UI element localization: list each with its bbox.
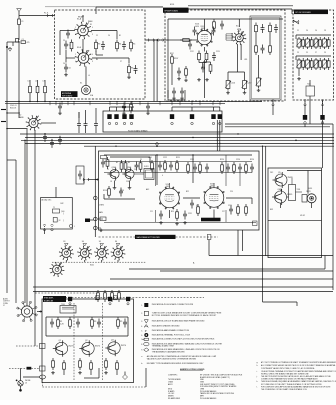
capacitor C267 bbox=[191, 200, 193, 204]
switch S1A bbox=[78, 25, 89, 36]
wire B2 top bus bbox=[168, 18, 283, 20]
svg-text:C27: C27 bbox=[222, 211, 225, 213]
svg-text:S5: S5 bbox=[99, 241, 101, 243]
svg-text:R5: R5 bbox=[120, 321, 122, 323]
capacitor C269 bbox=[184, 211, 186, 215]
module box A2 RF amplifier bbox=[165, 10, 285, 101]
wire bbox=[225, 34, 227, 40]
wire bbox=[23, 376, 40, 378]
svg-text:A6 CAL OSC: A6 CAL OSC bbox=[42, 198, 53, 201]
svg-text:INDICATES A CIRCUIT BOARD AND: INDICATES A CIRCUIT BOARD AND MAIN FRAME… bbox=[152, 320, 205, 323]
resistor R211 bbox=[269, 23, 271, 26]
wire drop x217 bbox=[216, 120, 218, 151]
connector P1/J1 bbox=[46, 14, 49, 17]
svg-text:C9: C9 bbox=[324, 52, 326, 54]
resistor R267 bbox=[245, 162, 247, 165]
wire bbox=[171, 107, 173, 111]
connector E35 bbox=[40, 366, 46, 371]
svg-text:FOR COMPLETE DESCRIPTION SEE: FOR COMPLETE DESCRIPTION SEE A NUMBERED … bbox=[261, 385, 331, 388]
capacitor C212 bbox=[189, 41, 191, 45]
connector E22 black bbox=[320, 115, 324, 120]
svg-text:IF/AF AMPL: IF/AF AMPL bbox=[44, 297, 54, 300]
bus tick stubs bbox=[49, 102, 51, 106]
svg-text:INDICATES A MAIN FRAME CONNECT: INDICATES A MAIN FRAME CONNECTION bbox=[152, 329, 190, 332]
trimmer C243 bbox=[324, 58, 326, 60]
wire bbox=[7, 41, 19, 43]
connector P3 bbox=[157, 39, 160, 42]
svg-text:F1: F1 bbox=[22, 21, 24, 23]
fuse F1 bbox=[18, 16, 20, 20]
svg-text:INDICATES A TERMINAL POST E20: INDICATES A TERMINAL POST E201 - E219 bbox=[152, 333, 190, 336]
pin bbox=[304, 122, 306, 124]
connector J2 audio bbox=[21, 306, 32, 317]
resistor R252 bbox=[125, 160, 127, 163]
wire bbox=[65, 50, 67, 63]
switch S1B bbox=[78, 53, 89, 64]
svg-text:SW BOARD: SW BOARD bbox=[62, 94, 73, 97]
wire bbox=[199, 62, 207, 64]
capacitor C220 bbox=[262, 24, 264, 28]
wire bbox=[168, 39, 181, 41]
capacitor C251 bbox=[136, 162, 138, 166]
legend item 8 bbox=[143, 342, 149, 345]
svg-text:C5: C5 bbox=[140, 159, 142, 161]
wire drop x322 bbox=[322, 120, 324, 168]
resistor R205 bbox=[206, 51, 208, 54]
svg-text:R4: R4 bbox=[96, 59, 98, 61]
svg-text:2N335: 2N335 bbox=[287, 194, 292, 196]
trimmer C242 bbox=[315, 58, 317, 60]
svg-text:5654: 5654 bbox=[211, 185, 215, 187]
wire bbox=[109, 107, 111, 111]
wire bbox=[45, 317, 47, 336]
ground bbox=[227, 91, 229, 93]
svg-text:C205 .01: C205 .01 bbox=[10, 105, 17, 107]
svg-text:R6: R6 bbox=[131, 68, 133, 70]
svg-text:R214: R214 bbox=[103, 190, 107, 192]
svg-text:R224: R224 bbox=[220, 159, 224, 161]
wire bbox=[280, 189, 282, 192]
capacitor C293 bbox=[124, 319, 126, 323]
svg-text:R22: R22 bbox=[186, 191, 189, 193]
connector E21 black bbox=[303, 115, 307, 120]
ground bbox=[114, 186, 116, 188]
wire vertical x27 bbox=[26, 128, 28, 306]
trimmer C230 bbox=[298, 37, 300, 39]
capacitor C219b bbox=[181, 88, 183, 92]
resistor R299 bbox=[63, 360, 65, 363]
trimmer C210 bbox=[194, 27, 196, 31]
svg-text:C217: C217 bbox=[247, 83, 251, 85]
wire vertical x157 bbox=[156, 40, 158, 102]
svg-text:C7: C7 bbox=[315, 52, 317, 54]
svg-text:C3: C3 bbox=[134, 169, 136, 171]
wire bbox=[33, 286, 333, 288]
resistor R213 bbox=[269, 43, 271, 46]
wire bbox=[82, 39, 84, 53]
svg-text:5654: 5654 bbox=[201, 28, 205, 30]
node junction bbox=[18, 41, 19, 42]
wire bbox=[92, 57, 129, 59]
svg-text:C231: C231 bbox=[188, 213, 192, 215]
pin bbox=[123, 122, 125, 124]
wire bbox=[251, 222, 254, 224]
svg-text:R1: R1 bbox=[119, 35, 121, 37]
resistor R298 bbox=[52, 358, 54, 361]
capacitor C230 bbox=[78, 120, 80, 124]
svg-text:C6: C6 bbox=[63, 63, 65, 65]
svg-text:R3: R3 bbox=[98, 44, 100, 46]
svg-text:CONTINGENT VALUES WITH TUBE,: CONTINGENT VALUES WITH TUBE, 1.5 AND T.P… bbox=[261, 367, 315, 370]
svg-text:R5: R5 bbox=[133, 44, 135, 46]
connector E205 black bbox=[170, 114, 174, 119]
pin bbox=[115, 122, 117, 124]
wire bbox=[83, 180, 85, 184]
wire bbox=[95, 51, 97, 55]
svg-text:C223: C223 bbox=[190, 159, 194, 161]
svg-text:P: P bbox=[145, 329, 147, 333]
inductor T203 bbox=[60, 306, 76, 314]
transistor Q206 bbox=[108, 342, 120, 354]
trimmer C231 bbox=[307, 37, 309, 39]
pin bbox=[108, 122, 110, 124]
svg-text:BAND: BAND bbox=[19, 116, 24, 119]
svg-text:FL201: FL201 bbox=[144, 166, 149, 168]
wire bbox=[98, 368, 100, 378]
transistor Q204 bbox=[55, 342, 67, 354]
capacitor C262 bbox=[194, 164, 196, 168]
wire bbox=[110, 156, 150, 158]
resistor R204 bbox=[198, 51, 200, 54]
svg-text:S4: S4 bbox=[82, 241, 84, 243]
svg-text:2N274: 2N274 bbox=[95, 346, 100, 348]
svg-text:S201: S201 bbox=[90, 265, 94, 267]
wire B5 grid bbox=[104, 161, 252, 163]
switch S2 band bbox=[29, 118, 38, 127]
variable capacitor C217 bbox=[244, 79, 246, 81]
capacitor C291 bbox=[77, 319, 79, 323]
component diamond bbox=[123, 375, 128, 380]
svg-text:THROUGH SCHEME, REQUIRES A: THROUGH SCHEME, REQUIRES A CALIBRATED CA… bbox=[261, 380, 336, 383]
wire bbox=[97, 227, 101, 229]
wire bbox=[78, 112, 80, 118]
svg-text:C6: C6 bbox=[68, 68, 70, 70]
connector bbox=[96, 296, 100, 300]
pin bbox=[212, 122, 214, 124]
pin bbox=[130, 122, 132, 124]
wire bbox=[90, 219, 94, 221]
svg-text:J2: J2 bbox=[3, 305, 5, 307]
capacitor C3 bbox=[65, 41, 67, 45]
wire bbox=[65, 260, 67, 262]
svg-text:1K: 1K bbox=[110, 181, 112, 183]
trimmer C233 bbox=[324, 37, 326, 39]
svg-text:Q6: Q6 bbox=[278, 189, 281, 191]
svg-text:C218: C218 bbox=[120, 190, 124, 192]
svg-text:2N274: 2N274 bbox=[68, 346, 73, 348]
capacitor C290 bbox=[51, 319, 53, 323]
resistor R260 bbox=[151, 160, 153, 163]
wire bbox=[156, 155, 158, 185]
transistor Q205a bbox=[275, 174, 287, 186]
capacitor C260 bbox=[159, 162, 161, 166]
wire bus right y127 bbox=[225, 126, 330, 128]
capacitor C237 bbox=[59, 103, 61, 107]
wire gang line bbox=[52, 261, 146, 263]
svg-text:CONNECTIONS THAN ARE NOW US: CONNECTIONS THAN ARE NOW USING ON THE RA… bbox=[261, 378, 319, 381]
wire bus y143 bbox=[25, 142, 334, 144]
switch S1C bbox=[235, 34, 243, 42]
resistor R261 bbox=[164, 160, 166, 163]
svg-text:THE OTHER END OF THE CHAR: THE OTHER END OF THE CHART OF ADJUSTABLE… bbox=[261, 388, 307, 391]
resistor R271 bbox=[237, 204, 239, 207]
switch S5 bbox=[97, 249, 106, 258]
inductor T201 bbox=[306, 86, 315, 96]
ground bbox=[128, 76, 130, 78]
node bbox=[29, 101, 30, 102]
inductor L2 bbox=[37, 84, 39, 87]
component box bbox=[302, 195, 307, 203]
wire bbox=[296, 55, 331, 57]
resistor R222 bbox=[319, 37, 321, 40]
svg-text:C3: C3 bbox=[63, 40, 65, 42]
wire V201 drop bbox=[203, 60, 205, 98]
wire bbox=[208, 240, 210, 256]
wire bbox=[167, 19, 169, 40]
label A2 bbox=[163, 8, 189, 13]
junction bbox=[94, 196, 98, 200]
wire bbox=[293, 20, 299, 24]
svg-text:NOT USED END OF THE UNIT?: NOT USED END OF THE UNIT? THE ADJUSTABLE… bbox=[261, 383, 322, 386]
crystal Y1 bbox=[53, 209, 60, 213]
resistor R303 bbox=[116, 360, 118, 363]
module plug board bbox=[103, 111, 222, 132]
svg-text:COMP/RFC: COMP/RFC bbox=[168, 374, 178, 376]
svg-text:C222: C222 bbox=[163, 157, 167, 159]
label A8 bbox=[43, 296, 66, 302]
legend item 9 bbox=[144, 348, 149, 352]
svg-text:C6: C6 bbox=[315, 30, 317, 32]
connector P202 bbox=[272, 99, 275, 102]
connector bbox=[43, 224, 46, 227]
terminal E bbox=[207, 235, 211, 240]
wire bbox=[160, 270, 333, 272]
node bbox=[295, 140, 297, 142]
ground bbox=[298, 77, 300, 79]
wire bbox=[116, 107, 118, 111]
connector E34 bbox=[40, 344, 46, 349]
resistor R263 bbox=[187, 162, 189, 165]
svg-text:C1: C1 bbox=[107, 169, 109, 171]
ground bbox=[65, 73, 67, 75]
svg-text:TAKEN OFF OF ADJUST AND PO: TAKEN OFF OF ADJUST AND POSITIONS bbox=[200, 392, 235, 395]
svg-text:C216: C216 bbox=[231, 83, 235, 85]
svg-text:ALL CONNECTIONS VALUES SHOWN: ALL CONNECTIONS VALUES SHOWN THUS 1.8 K … bbox=[261, 364, 336, 367]
svg-text:ANTENNA: ANTENNA bbox=[62, 92, 72, 95]
ground bbox=[173, 97, 175, 99]
resistor R265 bbox=[221, 162, 223, 165]
svg-text:BOARD MODULE DETAIL (SHEET 2: BOARD MODULE DETAIL (SHEET 2) bbox=[200, 376, 230, 379]
svg-text:Y1: Y1 bbox=[53, 207, 55, 209]
wire B5 top bus bbox=[104, 154, 252, 156]
module box A5 IF amplifier bbox=[99, 151, 260, 230]
svg-text:E201: E201 bbox=[170, 4, 174, 6]
connector P204 bbox=[321, 99, 324, 102]
legend item 6 bbox=[144, 333, 148, 337]
svg-text:2N274: 2N274 bbox=[121, 345, 126, 347]
ground bbox=[100, 229, 102, 231]
wire bbox=[63, 372, 65, 375]
svg-text:470: 470 bbox=[27, 42, 30, 44]
svg-text:R2: R2 bbox=[116, 162, 118, 164]
wire bbox=[110, 278, 333, 280]
trimmer C223 bbox=[258, 76, 260, 78]
node bbox=[217, 140, 218, 141]
resistor R235 bbox=[130, 102, 132, 105]
wire bbox=[41, 122, 56, 124]
dashed stage divider bbox=[73, 303, 75, 380]
resistor R216 bbox=[97, 218, 103, 220]
resistor R203 bbox=[180, 39, 183, 41]
wire bbox=[7, 128, 27, 130]
svg-text:Q5: Q5 bbox=[278, 172, 281, 174]
wire bbox=[171, 66, 173, 85]
svg-text:THE SECTION SWITCH SHOWN S A: THE SECTION SWITCH SHOWN S AT RF, AS PL,… bbox=[261, 375, 332, 378]
connector P2 bbox=[147, 39, 150, 42]
svg-text:P/O A SUBCHASSIS: P/O A SUBCHASSIS bbox=[200, 397, 217, 400]
dashed wire bbox=[9, 367, 27, 369]
switch S7 bbox=[53, 265, 62, 274]
trimmer C241 bbox=[307, 58, 309, 60]
wire bbox=[110, 106, 135, 108]
resistor R202 bbox=[213, 19, 215, 22]
resistor R268 bbox=[197, 204, 199, 207]
capacitor C264 bbox=[227, 164, 229, 168]
resistor R302 bbox=[105, 358, 107, 361]
wire bus y102 bbox=[5, 101, 262, 103]
wire bbox=[298, 70, 300, 76]
wire bbox=[124, 107, 126, 111]
resistor R220 bbox=[302, 37, 304, 40]
module small box AGC bbox=[76, 166, 84, 184]
svg-text:C5: C5 bbox=[306, 52, 308, 54]
tube V203 bbox=[204, 188, 224, 208]
resistor R207 bbox=[171, 54, 173, 57]
wire left vertical x19 bbox=[18, 42, 20, 118]
connector black E36 bbox=[27, 367, 32, 370]
svg-text:THE ASSEMBLY DIAGRAMS SHOWN: THE ASSEMBLY DIAGRAMS SHOWN bbox=[152, 350, 185, 353]
svg-text:R4: R4 bbox=[119, 44, 121, 46]
wire bbox=[104, 198, 135, 200]
relay K1 bbox=[81, 85, 90, 94]
svg-text:R3: R3 bbox=[94, 321, 96, 323]
svg-text:PHONE: PHONE bbox=[25, 380, 30, 382]
svg-text:L2: L2 bbox=[35, 81, 37, 83]
resistor R1 cluster bbox=[12, 42, 14, 46]
capacitor C213 bbox=[213, 52, 215, 56]
capacitor C265 bbox=[239, 164, 241, 168]
svg-text:T201: T201 bbox=[307, 84, 311, 86]
svg-text:C212: C212 bbox=[190, 51, 194, 53]
connector oval E37 bbox=[40, 375, 46, 379]
wire B3 drop bbox=[309, 100, 311, 124]
label A5 inner bbox=[201, 218, 221, 222]
resistor R300 bbox=[79, 358, 81, 361]
wire bbox=[44, 230, 46, 235]
wire left vertical x7 bbox=[6, 47, 8, 293]
capacitor C231 bbox=[85, 120, 87, 124]
wire bbox=[78, 112, 80, 120]
svg-text:INDICATES A PLUG BOARD CONNECT: INDICATES A PLUG BOARD CONNECTION PIN bbox=[152, 303, 194, 306]
wire bbox=[262, 146, 264, 302]
pin bbox=[191, 122, 193, 124]
dashed wire bbox=[16, 345, 40, 347]
resistor R231 bbox=[311, 58, 313, 61]
wire bbox=[181, 39, 197, 41]
wire bbox=[33, 291, 333, 293]
dashed wire bottom bbox=[42, 379, 44, 387]
svg-text:MILITARY TYPE NUMBERS INDICATE: MILITARY TYPE NUMBERS INDICATED FOR REFE… bbox=[147, 362, 204, 365]
capacitor C261 bbox=[170, 162, 172, 166]
wire bbox=[219, 107, 221, 111]
capacitor C236 bbox=[147, 103, 149, 107]
wire bbox=[226, 33, 233, 35]
wire bbox=[82, 16, 84, 22]
wire bbox=[131, 107, 133, 111]
wire top bus bbox=[45, 6, 163, 8]
capacitor C222 bbox=[262, 45, 264, 49]
capacitor C218b bbox=[173, 88, 175, 92]
wire dashed bbox=[46, 297, 204, 299]
wire vertical x25 bbox=[24, 140, 26, 303]
polarized cap C2 bbox=[6, 46, 8, 48]
svg-text:J3: J3 bbox=[25, 383, 27, 385]
phone jack J3 bbox=[20, 368, 22, 380]
ground bbox=[258, 89, 260, 91]
wire vertical x16 bbox=[15, 160, 17, 303]
svg-text:5654: 5654 bbox=[195, 26, 199, 28]
wire bbox=[237, 230, 239, 256]
wire bbox=[203, 61, 211, 63]
wire bbox=[29, 96, 31, 102]
svg-text:Y201: Y201 bbox=[297, 189, 301, 191]
wire drop x305b bbox=[304, 124, 306, 127]
resistor R295 bbox=[69, 317, 71, 320]
crystal Y201 bbox=[289, 185, 296, 201]
wire vertical x35 bbox=[34, 130, 36, 346]
tick components on band bbox=[44, 133, 46, 137]
connector E201 black bbox=[107, 114, 111, 119]
transistor Q202 bbox=[125, 169, 134, 178]
svg-text:L4: L4 bbox=[88, 75, 90, 77]
legend item 7 bbox=[144, 338, 148, 340]
connector E203 black bbox=[122, 114, 126, 119]
svg-text:L1: L1 bbox=[28, 81, 30, 83]
capacitor C270 bbox=[230, 206, 232, 210]
wire bbox=[311, 203, 313, 208]
capacitor C232 bbox=[95, 120, 97, 124]
svg-text:T203: T203 bbox=[61, 304, 65, 306]
svg-text:PLUG BOARD (REAR): PLUG BOARD (REAR) bbox=[128, 129, 148, 132]
wire bbox=[237, 44, 239, 72]
resistor R206 bbox=[210, 62, 212, 65]
svg-text:C226: C226 bbox=[236, 159, 240, 161]
capacitor C214 bbox=[202, 64, 204, 68]
capacitor C252 bbox=[120, 188, 122, 192]
connector bbox=[253, 221, 258, 226]
resistor R208 bbox=[185, 66, 187, 69]
resistor R250 bbox=[107, 157, 109, 160]
